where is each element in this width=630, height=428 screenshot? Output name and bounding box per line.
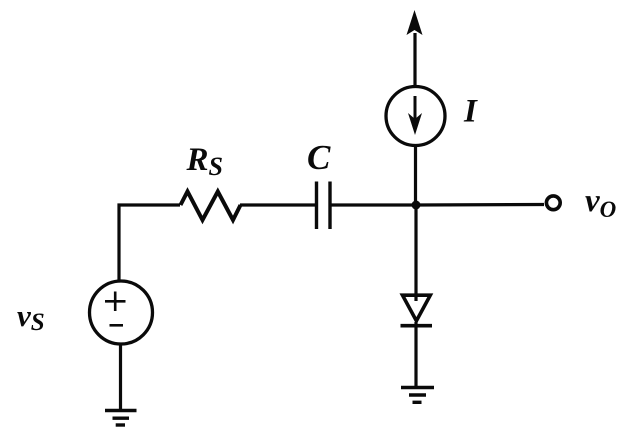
current source arrow (down) [414,96,417,122]
wire node up to current source [414,145,417,205]
diode D1 triangle [403,295,431,321]
resistor R_S [181,192,241,221]
wire diode to ground [414,322,417,387]
wire node to output terminal [416,203,544,207]
capacitor C plate right [328,182,331,230]
minus sign [110,324,124,327]
wire node down to diode [414,205,417,301]
ground (left, under vs) [105,409,137,412]
diode D1 cathode bar [401,324,433,328]
svg-text:vO: vO [585,183,616,222]
ground (right, under diode) [401,386,434,389]
node junction dot [412,201,421,210]
wire resistor to capacitor [240,203,316,206]
terminal vO open circle [546,196,560,210]
capacitor C plate left [315,182,318,230]
svg-text:I: I [463,94,478,130]
svg-text:vS: vS [17,298,45,336]
wire current source top [413,33,416,87]
wire vs bottom to ground [119,344,122,410]
wire capacitor to node [330,203,416,206]
svg-text:C: C [307,138,331,177]
plus sign [105,292,126,312]
arrowhead top [407,10,423,35]
voltage source V1 circle [90,281,153,344]
wire left: corner from vs top to resistor [119,205,180,282]
current source U1 circle [386,87,445,146]
svg-text:RS: RS [186,142,223,181]
